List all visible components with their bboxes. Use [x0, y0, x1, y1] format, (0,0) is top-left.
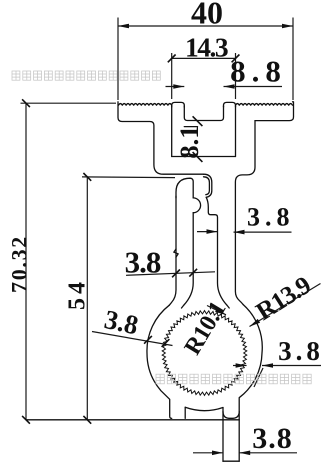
- R10.1 leader arrowhead: [215, 308, 226, 315]
- svg-text:8.1: 8.1: [174, 125, 204, 158]
- svg-text:3.8: 3.8: [125, 245, 161, 280]
- svg-text:54: 54: [65, 278, 91, 310]
- svg-text:3.8: 3.8: [247, 203, 295, 232]
- screw-port curl outer line: [204, 174, 212, 197]
- dim 14.3: left tick: [168, 55, 176, 63]
- dim 3.8 ball wall right: outer arrowhead: [262, 363, 273, 368]
- right slot-wall outer face: [235, 106, 237, 157]
- top slot: inner walls and bottom: [184, 106, 223, 121]
- bottom tail left face: [222, 408, 224, 462]
- dim 70.32: dimension line: [25, 103, 27, 420]
- svg-text:R13.9: R13.9: [251, 270, 316, 326]
- R13.9 leader arrowhead: [250, 319, 261, 327]
- dim 3.8 ball wall left: tick on outer arc: [144, 336, 152, 344]
- dim 40: dimension line: [118, 25, 293, 27]
- dim 40: right arrowhead: [282, 24, 293, 29]
- dim 3.8 (ball wall right): outer arrow line / text shelf: [262, 365, 321, 367]
- left leg inner face: [184, 407, 186, 418]
- hook bump on neck inner-left face: [193, 198, 200, 213]
- right step down to neck: [235, 121, 255, 305]
- dim 3.8 bottom tail: right arrowhead: [239, 451, 250, 456]
- svg-text:3.8: 3.8: [102, 304, 141, 340]
- dim 3.8 (ball wall right): inner arrow line: [233, 365, 247, 367]
- ball outer arc, left side: [147, 305, 172, 418]
- dim 8.1: top tick: [193, 116, 203, 126]
- dim 3.8 (bottom tail): left arrow line: [193, 452, 223, 454]
- dim 14.3: right tick: [232, 55, 240, 63]
- dim 54: top tick: [83, 173, 91, 181]
- serrated top surface, left tab: [119, 104, 172, 106]
- watermark line 1: [12, 71, 160, 80]
- left slot-wall rounded top: [172, 102, 185, 107]
- bottom tail groove above plate: [223, 412, 239, 419]
- R13.9 leader: [250, 284, 321, 327]
- dim 8.8: left arrowhead: [173, 84, 184, 89]
- serrated top surface, right tab: [236, 104, 293, 106]
- dim 3.8 (ball wall left): slanted leader: [92, 332, 173, 346]
- dim 14.3: extension lines: [171, 53, 173, 99]
- serrated bore (R10.1 knurled hole): [162, 311, 247, 396]
- R10.1 leader: [207, 306, 226, 315]
- ledge connecting screw-port to neck inner-right face: [206, 197, 229, 308]
- dim 70.32: top extension line: [21, 102, 117, 104]
- dim 8.8: left arrow line: [166, 86, 185, 88]
- svg-text:3.8: 3.8: [252, 422, 293, 455]
- bottom tail cap: [223, 460, 239, 462]
- dim 3.8 neck left wall: outer tick: [172, 270, 180, 278]
- svg-text:40: 40: [191, 0, 223, 31]
- web bottom: [172, 156, 236, 158]
- neck outer-left wall down to ball: [169, 196, 176, 305]
- svg-text:14.3: 14.3: [185, 32, 228, 63]
- dim 3.8 neck right wall: inner arrowhead: [207, 229, 218, 234]
- break jog on neck outer-left wall: [174, 249, 178, 257]
- dim 3.8 neck right wall: outer arrowhead: [234, 230, 245, 235]
- svg-text:8.8: 8.8: [230, 54, 287, 89]
- dim 70.32: top tick: [22, 99, 30, 107]
- dim 8.8: right arrow line / text shelf: [224, 86, 283, 88]
- slot bottom step line: [184, 126, 197, 128]
- svg-text:R10.1: R10.1: [180, 297, 232, 359]
- dim 3.8 (neck right wall): outer arrow line / text shelf: [234, 231, 292, 233]
- dim 3.8 ball wall right: inner arrowhead: [236, 363, 247, 368]
- dim 54: dimension line: [86, 177, 88, 420]
- dim 3.8 (neck right wall): inner arrow line: [197, 231, 218, 233]
- dim 3.8 bottom tail: left arrowhead: [212, 451, 223, 456]
- dim 8.1: bottom tick: [193, 152, 203, 162]
- watermark line 2: [156, 374, 311, 384]
- right slot-wall rounded top: [224, 102, 236, 107]
- dim 3.8 neck left wall: inner tick: [189, 269, 197, 277]
- svg-text:70.32: 70.32: [7, 235, 32, 293]
- right outer edge of hat and right tab underside: [255, 102, 294, 121]
- dim 40: left arrowhead: [118, 24, 129, 29]
- dim 40: extension lines: [117, 18, 119, 101]
- svg-text:3.8: 3.8: [278, 336, 323, 366]
- neck left wall: rounded top lip: [176, 178, 193, 198]
- ball outer arc, right side: [239, 305, 262, 462]
- left slot-wall outer face: [171, 106, 173, 157]
- screw-port curl inner line: [204, 177, 210, 195]
- dim 14.3: dimension line: [172, 57, 236, 59]
- bottom surface line (also extension line of 70.32 and 54): [26, 419, 239, 421]
- dim 70.32: bottom tick: [22, 416, 30, 424]
- dim 3.8 (neck left wall): dimension line: [126, 272, 215, 276]
- extra slanted mark near ball lower-right: [254, 368, 263, 387]
- dim 3.8 (bottom tail): right arrow line / text shelf: [239, 452, 297, 454]
- neck inner-left face down to bore mouth: [182, 213, 194, 308]
- dim 3.8 ball wall left: tick on serrated bore: [162, 339, 170, 347]
- left outer edge of hat: [118, 102, 204, 174]
- dim 54: top extension line: [82, 176, 175, 179]
- ball outer arc, bottom between legs: [185, 407, 223, 410]
- dim 54: bottom tick: [83, 416, 91, 424]
- dim 8.8: right arrowhead: [224, 84, 235, 89]
